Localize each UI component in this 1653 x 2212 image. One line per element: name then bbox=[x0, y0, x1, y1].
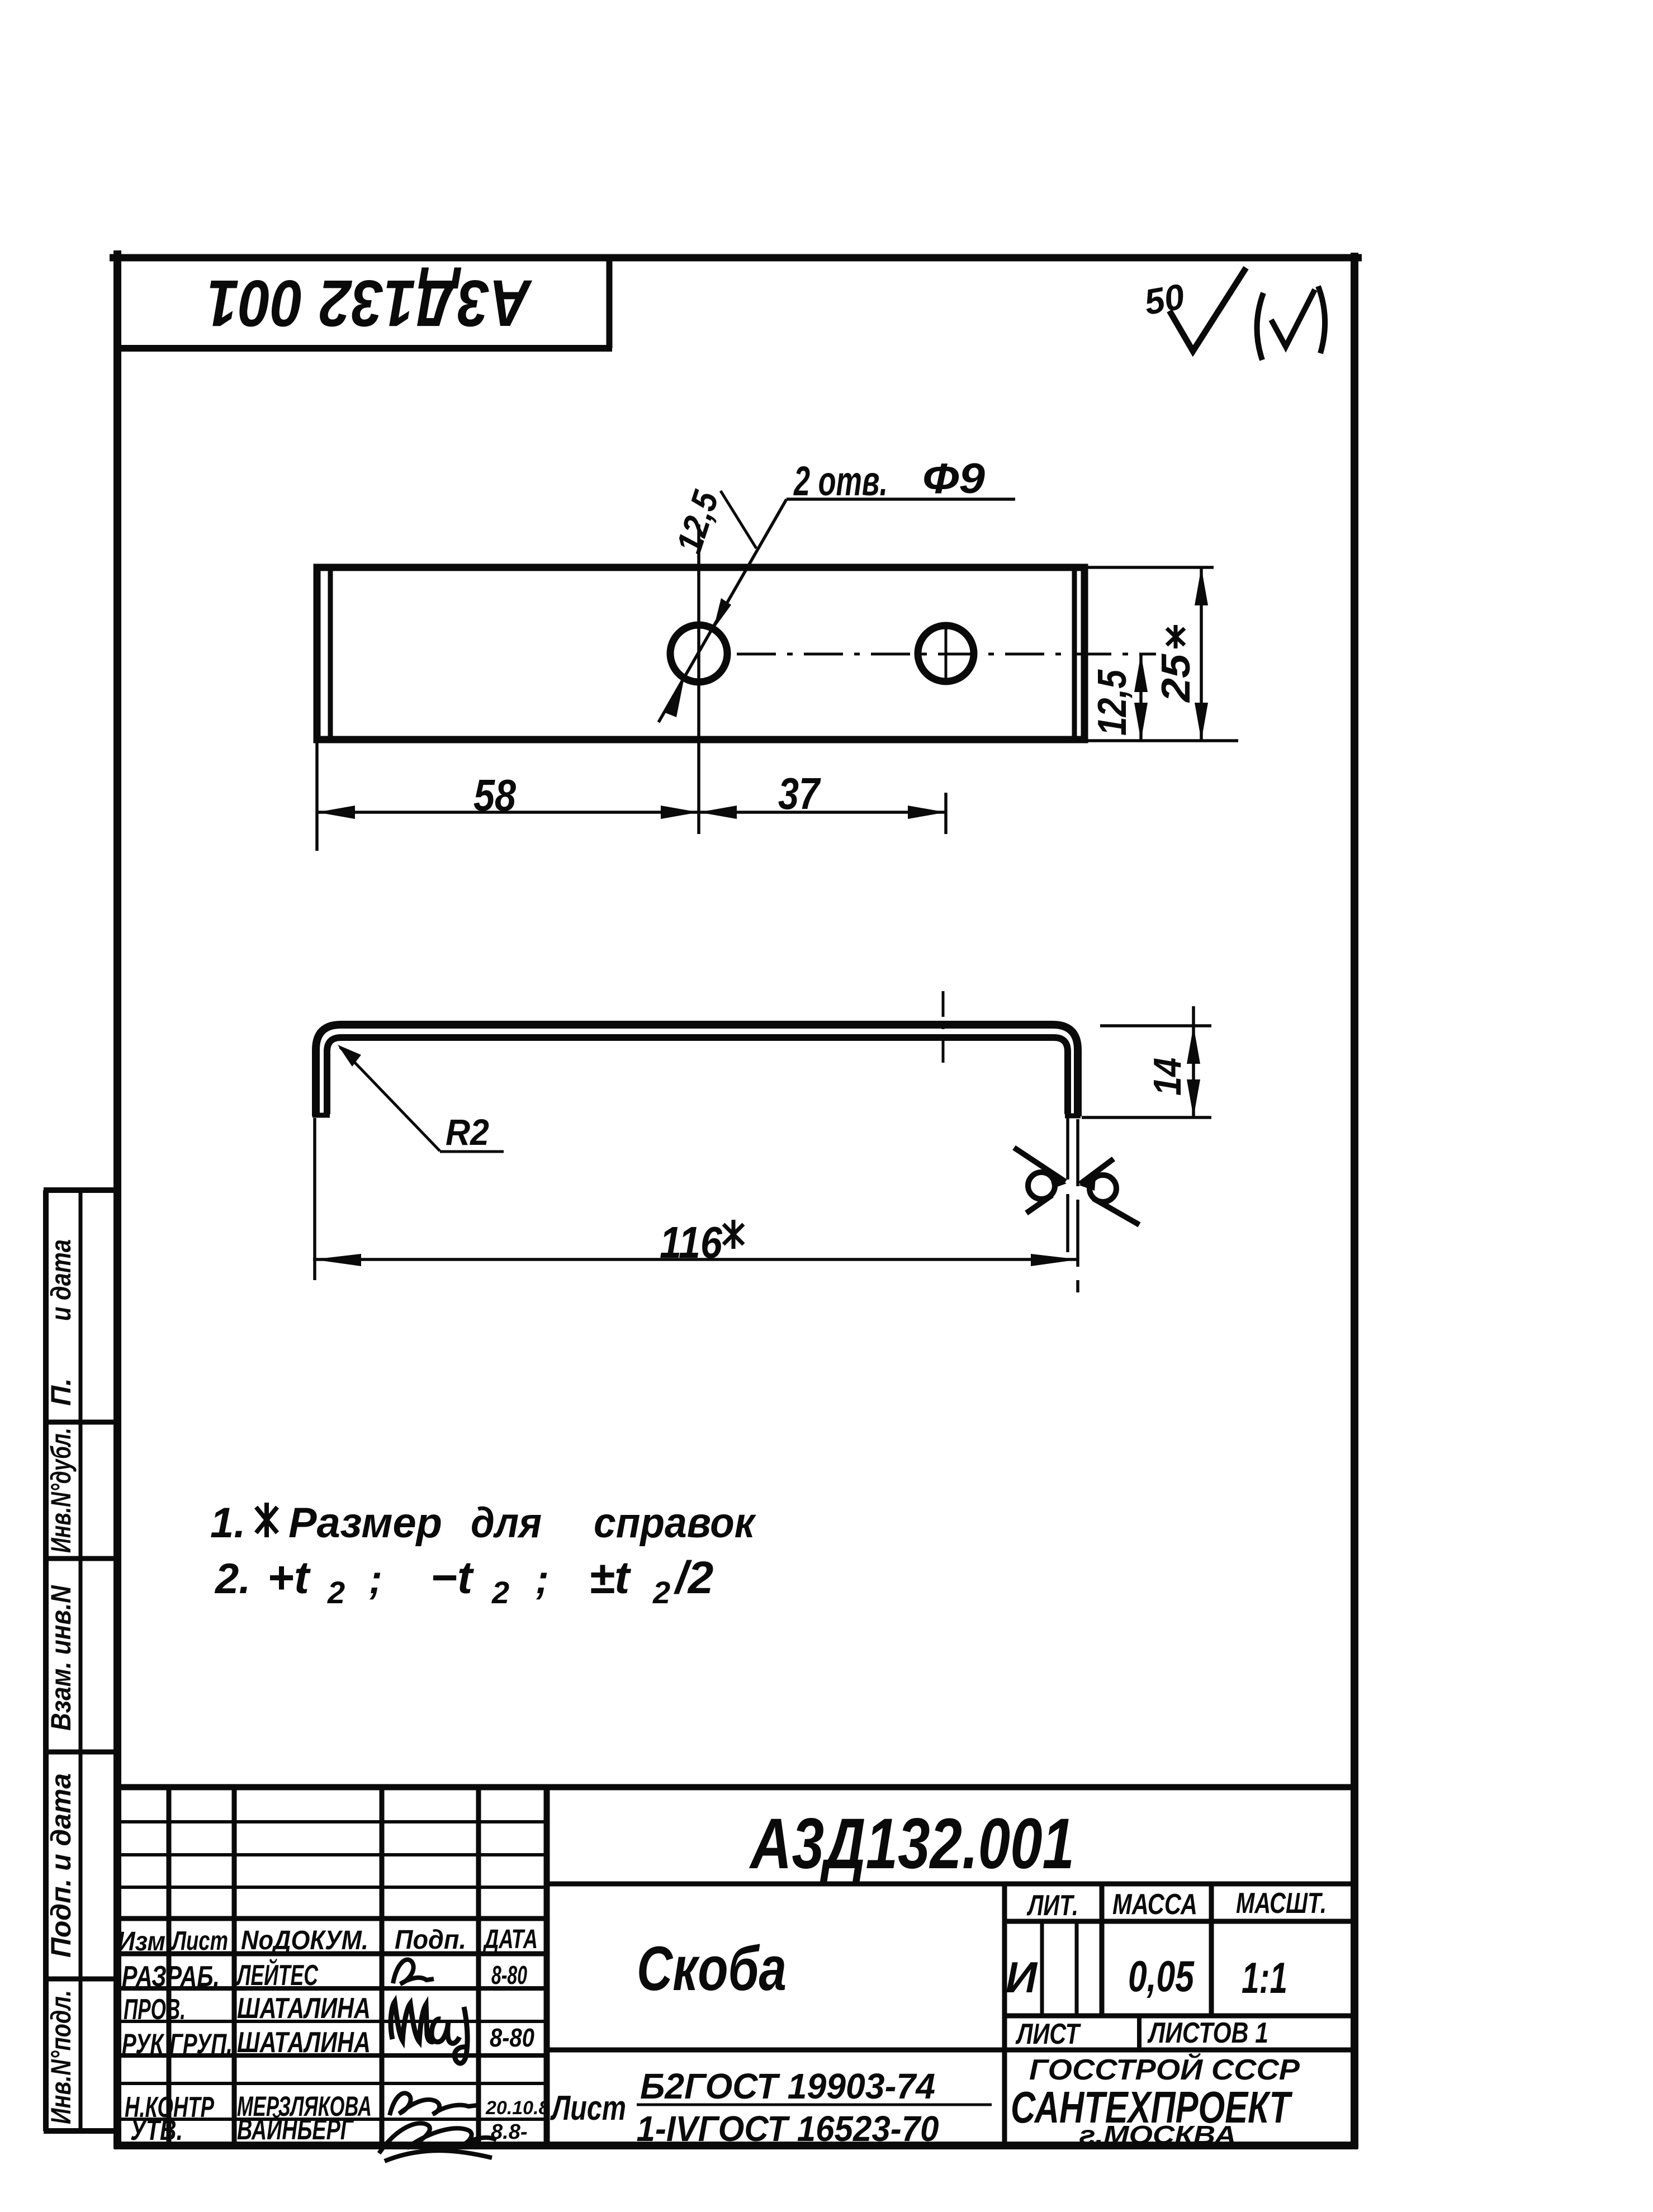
svg-text:2: 2 bbox=[491, 1575, 509, 1610]
svg-text:ДАТА: ДАТА bbox=[482, 1925, 538, 1954]
hole 1 bbox=[670, 625, 727, 682]
channel outer profile bbox=[316, 1025, 1078, 1116]
document number bbox=[749, 1804, 1074, 1884]
svg-text:Изм: Изм bbox=[117, 1927, 165, 1957]
svg-text:ВАЙНБЕРГ: ВАЙНБЕРГ bbox=[237, 2112, 354, 2146]
signature prov big bbox=[391, 2002, 467, 2063]
svg-text:МАСШТ.: МАСШТ. bbox=[1236, 1887, 1327, 1920]
note 2 bbox=[214, 1552, 713, 1610]
signature rows bbox=[122, 1958, 550, 2147]
part name Skoba bbox=[637, 1934, 787, 2003]
svg-text:П.: П. bbox=[45, 1378, 77, 1406]
inverted designation text bbox=[207, 266, 533, 340]
svg-text:Б2ГОСТ 19903-74: Б2ГОСТ 19903-74 bbox=[640, 2066, 935, 2106]
dimension 12,5 top bbox=[669, 485, 756, 558]
svg-text:Скоба: Скоба bbox=[637, 1934, 787, 2003]
leg end caps bbox=[312, 1115, 1081, 1116]
hole 2 bbox=[918, 626, 974, 681]
right bend line bbox=[1072, 568, 1077, 739]
svg-text:Подп.: Подп. bbox=[395, 1925, 466, 1955]
svg-text:1.: 1. bbox=[210, 1499, 245, 1547]
signature nkontr bbox=[390, 2093, 477, 2115]
svg-text:А3Д132.001: А3Д132.001 bbox=[749, 1804, 1074, 1884]
svg-text:2 отв.: 2 отв. bbox=[793, 458, 888, 504]
signature razrab bbox=[393, 1960, 434, 1984]
dimension 58 and 37 bbox=[317, 740, 946, 851]
svg-text:58: 58 bbox=[473, 770, 516, 820]
svg-text:РУК ГРУП.: РУК ГРУП. bbox=[122, 2028, 233, 2059]
svg-text:РАЗРАБ.: РАЗРАБ. bbox=[122, 1960, 220, 1993]
svg-text:Взам. инв.N: Взам. инв.N bbox=[45, 1585, 77, 1731]
svg-text:8-80: 8-80 bbox=[491, 1960, 527, 1990]
weld symbol right bbox=[1079, 1159, 1139, 1225]
svg-text:/2: /2 bbox=[673, 1552, 713, 1603]
svg-text:для: для bbox=[471, 1499, 542, 1547]
svg-text:;: ; bbox=[536, 1557, 549, 1602]
signature utv bbox=[379, 2123, 496, 2161]
svg-text:ГОССТРОЙ СССР: ГОССТРОЙ СССР bbox=[1029, 2053, 1300, 2086]
horizontal center line bbox=[737, 625, 1156, 684]
svg-text:2: 2 bbox=[652, 1575, 670, 1610]
svg-text:1:1: 1:1 bbox=[1242, 1953, 1287, 2002]
svg-text:Ф9: Ф9 bbox=[922, 455, 985, 503]
left bend line bbox=[328, 568, 333, 739]
roughness mark 50 bbox=[1142, 268, 1246, 351]
svg-text:116: 116 bbox=[660, 1218, 722, 1267]
svg-text:ЛИСТОВ 1: ЛИСТОВ 1 bbox=[1147, 2017, 1268, 2049]
leader 2 otv F9 bbox=[659, 455, 1015, 722]
svg-text:37: 37 bbox=[778, 769, 821, 818]
revision header row bbox=[117, 1925, 538, 1957]
svg-text:25: 25 bbox=[1154, 653, 1199, 703]
svg-text:50: 50 bbox=[1142, 276, 1188, 323]
svg-text:1-IVГОСТ 16523-70: 1-IVГОСТ 16523-70 bbox=[637, 2109, 939, 2149]
extension lines below legs bbox=[315, 1118, 1078, 1292]
svg-text:ПРОВ.: ПРОВ. bbox=[124, 1993, 186, 2026]
svg-text:+t: +t bbox=[267, 1552, 311, 1603]
svg-text:0,05: 0,05 bbox=[1128, 1952, 1195, 2001]
lit massa masshtab values bbox=[1006, 1952, 1287, 2002]
plate outline bbox=[317, 567, 1084, 740]
svg-text:ЛИСТ: ЛИСТ bbox=[1015, 2018, 1082, 2050]
svg-text:ШАТАЛИНА: ШАТАЛИНА bbox=[237, 1992, 371, 2025]
center line side view bbox=[942, 991, 945, 1069]
svg-text:и дата: и дата bbox=[45, 1239, 77, 1321]
dimension 116 bbox=[313, 1218, 1079, 1267]
svg-text:ЛИТ.: ЛИТ. bbox=[1026, 1889, 1078, 1922]
svg-text:Размер: Размер bbox=[288, 1499, 442, 1547]
svg-text:Подп. и дата: Подп. и дата bbox=[45, 1773, 77, 1958]
lit massa masshtab headers bbox=[1026, 1887, 1327, 1922]
svg-text:R2: R2 bbox=[446, 1111, 489, 1153]
organization bbox=[1011, 2053, 1300, 2149]
left column grid bbox=[44, 1190, 119, 2131]
title block grid bbox=[114, 1787, 1358, 2145]
svg-text:8.8-: 8.8- bbox=[491, 2120, 527, 2144]
svg-text:УТВ.: УТВ. bbox=[130, 2114, 183, 2147]
note 1 bbox=[210, 1499, 756, 1547]
svg-text:Лист: Лист bbox=[171, 1926, 228, 1956]
vertical center line hole 1 bbox=[697, 524, 700, 834]
material fraction bbox=[550, 2066, 992, 2149]
designation box top-left bbox=[114, 254, 612, 348]
svg-text:А3Д132 001: А3Д132 001 bbox=[207, 266, 533, 340]
svg-text:NoДОКУМ.: NoДОКУМ. bbox=[241, 1926, 368, 1955]
svg-text:Инв.N°дубл.: Инв.N°дубл. bbox=[45, 1428, 77, 1553]
svg-text:20.10.8: 20.10.8 bbox=[485, 2097, 550, 2119]
svg-text:ЛЕЙТЕС: ЛЕЙТЕС bbox=[235, 1958, 319, 1992]
svg-text:И: И bbox=[1006, 1953, 1038, 2002]
svg-text:Лист: Лист bbox=[550, 2089, 626, 2128]
left column labels bbox=[45, 1239, 77, 2124]
svg-text:12,5: 12,5 bbox=[1090, 669, 1135, 736]
svg-text:2: 2 bbox=[327, 1575, 345, 1610]
svg-text:справок: справок bbox=[594, 1499, 756, 1547]
svg-text:МАССА: МАССА bbox=[1112, 1888, 1197, 1921]
svg-text:г.МОСКВА: г.МОСКВА bbox=[1079, 2120, 1237, 2149]
roughness mark in parentheses bbox=[1257, 286, 1325, 360]
dimension 12,5 right bbox=[1087, 654, 1238, 741]
list listov row bbox=[1015, 2017, 1268, 2050]
svg-text:−t: −t bbox=[430, 1552, 475, 1603]
frame border bbox=[110, 250, 1362, 2149]
svg-text:14: 14 bbox=[1145, 1058, 1189, 1096]
svg-text:Инв.N°подл.: Инв.N°подл. bbox=[45, 1990, 77, 2124]
svg-text:;: ; bbox=[369, 1557, 382, 1602]
svg-text:ШАТАЛИНА: ШАТАЛИНА bbox=[237, 2026, 371, 2059]
svg-text:2.: 2. bbox=[214, 1555, 250, 1603]
svg-text:8-80: 8-80 bbox=[490, 2023, 534, 2052]
dimension 25 right bbox=[1087, 567, 1214, 741]
weld symbol left bbox=[1014, 1148, 1067, 1213]
dimension 14 bbox=[1082, 1006, 1211, 1117]
svg-text:±t: ±t bbox=[589, 1552, 632, 1603]
R2 leader bbox=[338, 1045, 504, 1153]
channel inner profile bbox=[327, 1038, 1068, 1114]
